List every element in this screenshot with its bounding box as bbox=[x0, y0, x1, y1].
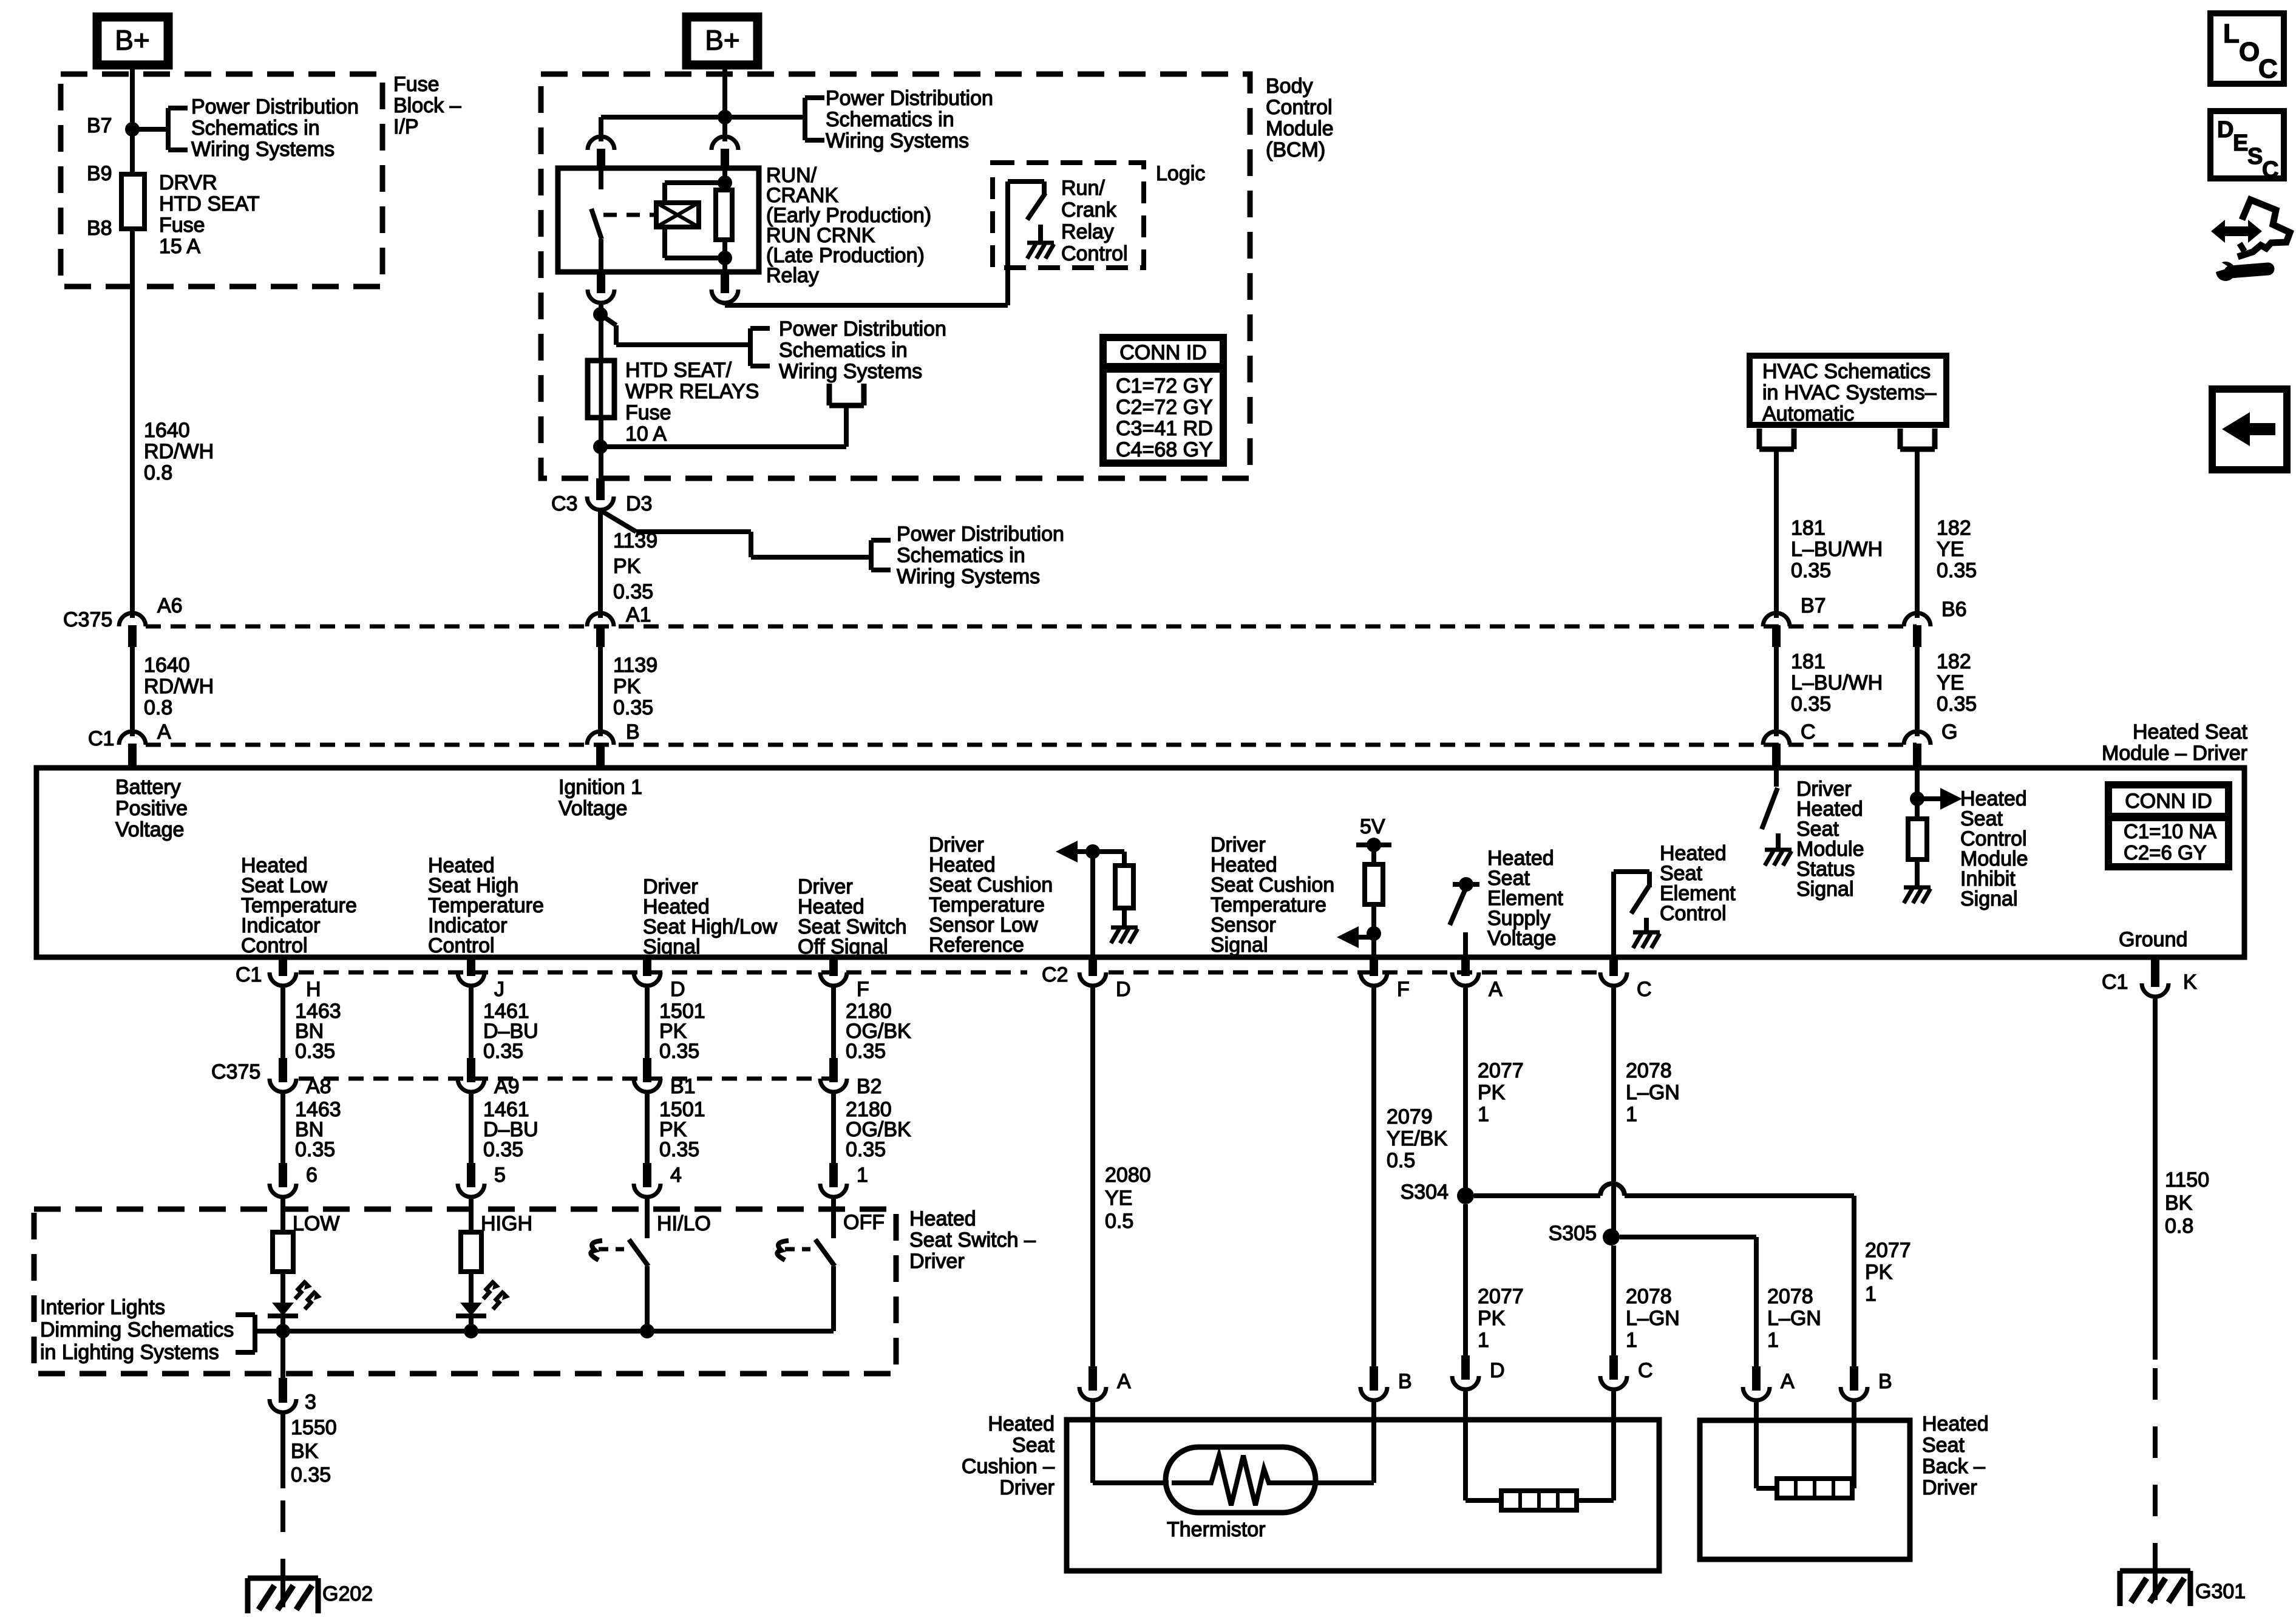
label C1 (bottom row) bbox=[236, 963, 262, 986]
svg-text:0.8: 0.8 bbox=[144, 696, 172, 719]
label C2 (bottom row) bbox=[1042, 963, 1068, 986]
label BCM connector list bbox=[1116, 375, 1213, 461]
svg-text:2078: 2078 bbox=[1626, 1285, 1672, 1308]
label pin K bbox=[2183, 971, 2197, 994]
label Run/Crank Relay Control bbox=[1061, 177, 1128, 265]
heated seat switch dashed box bbox=[34, 1209, 896, 1374]
svg-text:Body: Body bbox=[1266, 75, 1313, 98]
svg-text:5: 5 bbox=[494, 1164, 506, 1187]
label 5V bbox=[1360, 815, 1385, 838]
svg-text:S305: S305 bbox=[1549, 1222, 1597, 1245]
svg-text:L–GN: L–GN bbox=[1767, 1307, 1821, 1330]
wire segment to C375 row2 x=776 bbox=[469, 987, 474, 1070]
label G301 bbox=[2195, 1580, 2246, 1603]
svg-text:1640: 1640 bbox=[144, 419, 190, 442]
label Heated Seat Back - Driver bbox=[1922, 1412, 1989, 1499]
svg-text:2077: 2077 bbox=[1865, 1239, 1911, 1262]
connector pin 3 bbox=[270, 1378, 296, 1412]
label B6 pin bbox=[1941, 598, 1967, 621]
svg-text:Back –: Back – bbox=[1922, 1455, 1985, 1478]
label C1=10 NA C2=6 GY bbox=[2124, 820, 2216, 864]
svg-text:Control: Control bbox=[428, 934, 495, 957]
svg-text:S304: S304 bbox=[1401, 1181, 1449, 1204]
label cushion pin C bbox=[1638, 1359, 1653, 1382]
wire 1139 PK right-down bbox=[636, 532, 870, 557]
label Heated Seat High Temperature Indicator Control bbox=[428, 854, 544, 957]
svg-text:Voltage: Voltage bbox=[115, 818, 184, 841]
icon connector service bbox=[2211, 200, 2290, 281]
svg-text:C375: C375 bbox=[63, 608, 112, 631]
relay fixed contact bbox=[599, 168, 603, 189]
svg-text:181: 181 bbox=[1791, 517, 1826, 540]
connector relay pin top-left bbox=[588, 137, 614, 171]
label OFF bbox=[843, 1211, 885, 1234]
svg-text:Voltage: Voltage bbox=[1487, 927, 1556, 950]
svg-text:Run/: Run/ bbox=[1061, 177, 1105, 200]
connector C2 pin A bbox=[1452, 957, 1479, 986]
relay resistor wires bbox=[722, 168, 727, 272]
svg-text:Thermistor: Thermistor bbox=[1167, 1518, 1265, 1541]
svg-text:Power Distribution: Power Distribution bbox=[826, 87, 993, 110]
wire BCM feed horizontal bbox=[601, 115, 805, 120]
ground logic bbox=[1027, 243, 1054, 259]
node low reference junction bbox=[1085, 844, 1100, 859]
label pin A9 bbox=[494, 1075, 520, 1098]
node rail hi/lo bbox=[640, 1324, 654, 1338]
svg-text:Wiring Systems: Wiring Systems bbox=[826, 129, 969, 152]
svg-text:A: A bbox=[1117, 1370, 1131, 1393]
fuse DRVR HTD SEAT 15A bbox=[121, 174, 144, 229]
connector cushion D bbox=[1452, 1355, 1479, 1389]
label 1461 D-BU 0.35 (upper) bbox=[483, 1000, 538, 1063]
label 2078 L-GN 1 (upper) bbox=[1626, 1059, 1680, 1126]
svg-text:Module – Driver: Module – Driver bbox=[2102, 742, 2247, 765]
label G202 bbox=[322, 1582, 373, 1605]
connector relay pin top-right bbox=[712, 137, 738, 171]
svg-text:G: G bbox=[1941, 720, 1957, 744]
wire relay stub left bbox=[599, 168, 603, 171]
label pin 3 bbox=[305, 1391, 316, 1414]
wire A1 down bbox=[598, 511, 603, 618]
svg-text:Heated: Heated bbox=[909, 1207, 976, 1230]
svg-text:2077: 2077 bbox=[1478, 1059, 1524, 1082]
svg-text:0.35: 0.35 bbox=[1937, 693, 1977, 716]
svg-text:0.35: 0.35 bbox=[613, 580, 653, 603]
connector C1 A bbox=[119, 731, 146, 765]
label pin B2 bbox=[857, 1075, 882, 1098]
label Driver Heated Seat Cushion Temperature Sensor Low Reference bbox=[929, 833, 1053, 957]
svg-text:LOW: LOW bbox=[293, 1212, 339, 1235]
label 1461 D-BU 0.35 (lower) bbox=[483, 1098, 538, 1161]
svg-text:Schematics in: Schematics in bbox=[779, 339, 908, 362]
wire to relay pin 1 bbox=[599, 117, 603, 141]
svg-text:C1=10 NA: C1=10 NA bbox=[2124, 820, 2216, 842]
svg-text:C1: C1 bbox=[236, 963, 262, 986]
svg-text:PK: PK bbox=[1865, 1261, 1893, 1284]
connector cushion C bbox=[1600, 1355, 1627, 1389]
label Heated Seat Cushion - Driver bbox=[962, 1412, 1055, 1499]
connector C3/D3 bbox=[587, 478, 614, 510]
svg-text:Schematics in: Schematics in bbox=[191, 117, 320, 140]
label pin J (C1 bottom) bbox=[494, 978, 504, 1001]
wire BCM edge to C3 bbox=[599, 478, 603, 486]
svg-text:Fuse: Fuse bbox=[393, 73, 440, 96]
svg-text:HTD SEAT: HTD SEAT bbox=[159, 192, 260, 215]
label power distribution schematics (fuse block) bbox=[191, 95, 359, 161]
relay RUN/CRANK box bbox=[558, 168, 759, 272]
svg-text:BK: BK bbox=[2165, 1192, 2193, 1215]
BCM CONN ID box bbox=[1103, 337, 1223, 463]
svg-text:Signal: Signal bbox=[1796, 878, 1854, 901]
label pin 1 bbox=[857, 1164, 868, 1187]
wire cushion element C lead bbox=[1577, 1391, 1614, 1500]
svg-text:A8: A8 bbox=[306, 1075, 331, 1098]
svg-text:1150: 1150 bbox=[2165, 1168, 2209, 1192]
connector relay pin bottom-right bbox=[712, 272, 738, 303]
wire D column down bbox=[1090, 987, 1095, 1368]
svg-text:0.35: 0.35 bbox=[295, 1040, 335, 1063]
wire resistor to F pin bbox=[1371, 904, 1376, 957]
wire segment to C375 row2 x=1373 bbox=[831, 987, 836, 1070]
svg-text:1139: 1139 bbox=[613, 529, 657, 552]
label Body Control Module (BCM) bbox=[1266, 75, 1334, 161]
svg-text:Seat: Seat bbox=[1012, 1434, 1055, 1457]
wire fuse to C375 bbox=[130, 229, 135, 618]
svg-text:2079: 2079 bbox=[1387, 1105, 1433, 1128]
label C1 (row) bbox=[88, 727, 114, 750]
svg-text:0.35: 0.35 bbox=[659, 1138, 699, 1161]
svg-text:Wiring Systems: Wiring Systems bbox=[779, 360, 922, 383]
svg-text:PK: PK bbox=[1478, 1307, 1506, 1330]
module status switch blade bbox=[1762, 788, 1778, 829]
node S305 bbox=[1603, 1229, 1620, 1246]
connector C1 pin K bbox=[2142, 957, 2169, 997]
connector row C375 dashed line bbox=[146, 625, 1917, 629]
label 1150 BK 0.8 bbox=[2165, 1168, 2209, 1238]
svg-text:F: F bbox=[1397, 978, 1410, 1001]
svg-text:S: S bbox=[2247, 144, 2263, 169]
B+ terminal (BCM) bbox=[687, 17, 758, 65]
svg-text:A: A bbox=[1781, 1370, 1795, 1393]
connector C375 B6 bbox=[1904, 613, 1931, 647]
heater element cushion bbox=[1501, 1491, 1577, 1510]
wire A column below S304 bbox=[1463, 1204, 1468, 1358]
bracket power distribution (fuse block) bbox=[168, 108, 188, 150]
svg-text:D: D bbox=[1116, 978, 1131, 1001]
svg-text:1: 1 bbox=[1478, 1329, 1489, 1352]
connector C1 pin H bbox=[270, 957, 296, 986]
svg-text:CONN ID: CONN ID bbox=[2125, 790, 2212, 813]
svg-text:L–GN: L–GN bbox=[1626, 1307, 1680, 1330]
heater element back bbox=[1777, 1479, 1852, 1498]
label 181 L-BU/WH 0.35 (lower) bbox=[1791, 650, 1883, 716]
svg-text:(BCM): (BCM) bbox=[1266, 138, 1325, 161]
label pin C (C2) bbox=[1637, 978, 1652, 1001]
wire D pin riser bbox=[1090, 852, 1095, 957]
module CONN ID box bbox=[2108, 785, 2229, 867]
connector relay pin bottom-left bbox=[588, 272, 614, 303]
resistor inhibit bbox=[1908, 819, 1927, 859]
svg-text:Signal: Signal bbox=[1960, 887, 2018, 910]
bracket power distribution (right of D3) bbox=[871, 540, 891, 570]
connector switch pin 4 bbox=[634, 1163, 661, 1197]
svg-text:2080: 2080 bbox=[1105, 1164, 1151, 1187]
svg-text:0.35: 0.35 bbox=[1791, 559, 1831, 582]
connector back B bbox=[1841, 1366, 1867, 1400]
svg-text:0.8: 0.8 bbox=[144, 461, 172, 484]
label pin A bbox=[157, 720, 171, 744]
svg-text:H: H bbox=[306, 978, 321, 1001]
label Driver Heated Seat Switch Off Signal bbox=[798, 875, 907, 958]
ground G301 bbox=[2120, 1571, 2190, 1606]
wire K dashed bbox=[2153, 1368, 2158, 1568]
svg-text:J: J bbox=[494, 978, 504, 1001]
label B9 bbox=[87, 162, 112, 185]
label pin G bbox=[1941, 720, 1957, 744]
svg-text:Signal: Signal bbox=[643, 935, 701, 958]
node fuse-top junction bbox=[593, 307, 608, 322]
wire cushion element D lead bbox=[1466, 1391, 1501, 1500]
svg-text:3: 3 bbox=[305, 1391, 316, 1414]
svg-text:Heated: Heated bbox=[988, 1412, 1055, 1436]
svg-text:1: 1 bbox=[1626, 1103, 1637, 1126]
wire S305 branch right bbox=[1620, 1237, 1756, 1368]
wire cushion B lead bbox=[1311, 1402, 1374, 1483]
svg-text:Power Distribution: Power Distribution bbox=[897, 523, 1064, 546]
label pin 5 bbox=[494, 1164, 506, 1187]
connector row C1-bottom dashed (left) bbox=[299, 971, 1027, 975]
svg-text:Off Signal: Off Signal bbox=[798, 935, 888, 958]
wire C column below S305 bbox=[1611, 1246, 1616, 1358]
svg-text:HI/LO: HI/LO bbox=[657, 1212, 711, 1235]
relay linkage dashes bbox=[603, 213, 656, 217]
rail 5V bbox=[1356, 838, 1391, 852]
svg-text:A: A bbox=[157, 720, 171, 744]
wire relay left pin down bbox=[599, 304, 603, 314]
label pin F (C1 bottom) bbox=[857, 978, 869, 1001]
B+ terminal (left) bbox=[97, 17, 168, 65]
wire A into module bbox=[130, 765, 135, 768]
svg-text:Driver: Driver bbox=[1922, 1476, 1977, 1499]
svg-text:Schematics in: Schematics in bbox=[897, 544, 1025, 567]
wire B into module bbox=[598, 765, 603, 768]
svg-text:B: B bbox=[1878, 1370, 1892, 1393]
svg-text:C375: C375 bbox=[211, 1060, 260, 1083]
wire relay to logic bbox=[725, 181, 1008, 305]
svg-text:RD/WH: RD/WH bbox=[144, 440, 214, 463]
BCM dashed box bbox=[541, 74, 1250, 478]
wire segment to switch row x=466 bbox=[280, 1093, 285, 1175]
svg-text:YE: YE bbox=[1937, 538, 1964, 561]
label pin D (C2) bbox=[1116, 978, 1131, 1001]
svg-text:2077: 2077 bbox=[1478, 1285, 1524, 1308]
label B8 bbox=[87, 217, 112, 240]
svg-text:Control: Control bbox=[1266, 96, 1333, 119]
svg-text:15 A: 15 A bbox=[159, 235, 200, 258]
svg-text:0.35: 0.35 bbox=[483, 1040, 523, 1063]
relay coil branch top bbox=[665, 175, 732, 203]
label Driver Heated Seat Module Status Signal bbox=[1796, 778, 1864, 901]
svg-text:Heated Seat: Heated Seat bbox=[2133, 720, 2248, 744]
svg-text:L–BU/WH: L–BU/WH bbox=[1791, 671, 1883, 694]
svg-text:B8: B8 bbox=[87, 217, 112, 240]
svg-text:A: A bbox=[1489, 978, 1503, 1001]
connector C375 pin A8 bbox=[270, 1058, 296, 1092]
svg-text:E: E bbox=[2233, 131, 2248, 156]
connector row C1 dashed line bbox=[146, 743, 1917, 747]
svg-text:C: C bbox=[1638, 1359, 1653, 1382]
node rail high bbox=[464, 1324, 478, 1338]
label B7 pin bbox=[1801, 594, 1826, 617]
label 1139 PK 0.35 (D3 wire) bbox=[613, 529, 657, 603]
ground element control bbox=[1633, 932, 1660, 948]
relay coil branch bottom bbox=[665, 227, 732, 265]
wire 182 down to B6 bbox=[1915, 449, 1920, 618]
ground inhibit bbox=[1904, 887, 1931, 903]
label RUN/CRANK relay bbox=[766, 164, 931, 287]
wire to relay pin 2 bbox=[722, 117, 727, 141]
svg-text:0.8: 0.8 bbox=[2165, 1215, 2193, 1238]
svg-text:DRVR: DRVR bbox=[159, 171, 217, 194]
label pin D (C1 bottom) bbox=[670, 978, 685, 1001]
connector C375 A1 bbox=[587, 613, 614, 647]
svg-text:Power Distribution: Power Distribution bbox=[779, 317, 946, 341]
connector C1 G bbox=[1904, 731, 1931, 765]
label pin A8 bbox=[306, 1075, 331, 1098]
connector C375 B7 bbox=[1763, 613, 1790, 647]
element supply contact bar bbox=[1453, 877, 1479, 892]
svg-text:4: 4 bbox=[670, 1164, 682, 1187]
label C3 bbox=[551, 492, 577, 515]
label S305 bbox=[1549, 1222, 1597, 1245]
label Interior Lights Dimming Schematics bbox=[40, 1296, 234, 1364]
wire 1550 solid bbox=[280, 1414, 285, 1488]
svg-text:C: C bbox=[1637, 978, 1652, 1001]
label S304 bbox=[1401, 1181, 1449, 1204]
node sensor signal junction bbox=[1367, 926, 1381, 941]
svg-text:B9: B9 bbox=[87, 162, 112, 185]
wire back B lead bbox=[1852, 1402, 1854, 1488]
node inhibit junction bbox=[1910, 792, 1924, 806]
label back pin B bbox=[1878, 1370, 1892, 1393]
label D3 bbox=[626, 492, 652, 515]
label 2077 PK 1 (B branch) bbox=[1865, 1239, 1911, 1306]
relay switch blade bbox=[591, 209, 602, 239]
label 182 YE 0.35 (upper) bbox=[1937, 517, 1977, 582]
wire B+ down into BCM bbox=[722, 65, 727, 117]
wire segment to C375 row2 x=1066 bbox=[645, 987, 650, 1070]
wire B7-C seg bbox=[1774, 647, 1779, 736]
bracket-u power distribution (BCM bottom) bbox=[829, 384, 864, 405]
svg-text:Logic: Logic bbox=[1156, 162, 1205, 185]
connector row C375-2 dashed line bbox=[299, 1077, 834, 1081]
connector C1 pin F bbox=[820, 957, 847, 986]
wire fuse to BCM edge bbox=[599, 418, 603, 478]
resistor low reference bbox=[1115, 866, 1133, 908]
svg-text:1640: 1640 bbox=[144, 654, 190, 677]
ground module status bbox=[1765, 850, 1792, 866]
wire A pin riser bbox=[1463, 932, 1468, 957]
LED high indicator bbox=[456, 1198, 510, 1331]
node B7 junction bbox=[125, 122, 140, 137]
switch HI/LO bbox=[591, 1198, 648, 1331]
svg-text:1: 1 bbox=[1478, 1103, 1489, 1126]
svg-text:L–BU/WH: L–BU/WH bbox=[1791, 538, 1883, 561]
wire low ref resistor to ground bbox=[1122, 908, 1127, 927]
wire B7 tap bbox=[132, 127, 168, 132]
svg-text:WPR RELAYS: WPR RELAYS bbox=[625, 380, 759, 403]
svg-text:0.35: 0.35 bbox=[295, 1138, 335, 1161]
thermistor element bbox=[1172, 1456, 1311, 1505]
svg-text:D: D bbox=[1490, 1359, 1505, 1382]
label 2180 OG/BK 0.35 (upper) bbox=[846, 1000, 911, 1063]
ground low reference bbox=[1111, 927, 1138, 943]
svg-text:B1: B1 bbox=[670, 1075, 696, 1098]
label A1 pin bbox=[626, 603, 651, 626]
label pin 4 bbox=[670, 1164, 682, 1187]
svg-text:B7: B7 bbox=[87, 114, 112, 137]
svg-text:1550: 1550 bbox=[291, 1416, 337, 1439]
connector C375 pin B2 bbox=[820, 1058, 847, 1092]
label HTD SEAT/WPR RELAYS Fuse 10 A bbox=[625, 359, 759, 446]
svg-text:0.5: 0.5 bbox=[1387, 1149, 1415, 1172]
svg-text:182: 182 bbox=[1937, 517, 1971, 540]
icon DESC box bbox=[2210, 111, 2284, 183]
label Heated Seat Control Module Inhibit Signal bbox=[1960, 787, 2028, 910]
svg-text:Automatic: Automatic bbox=[1762, 402, 1854, 425]
relay coil X-box bbox=[656, 203, 699, 227]
svg-text:D: D bbox=[670, 978, 685, 1001]
label cushion pin B bbox=[1398, 1370, 1412, 1393]
label 2078 L-GN 1 (A branch) bbox=[1767, 1285, 1821, 1352]
svg-text:Wiring Systems: Wiring Systems bbox=[897, 565, 1040, 588]
label CONN ID (BCM) bbox=[1119, 341, 1207, 364]
svg-text:Power Distribution: Power Distribution bbox=[191, 95, 359, 118]
element control blade bbox=[1631, 886, 1649, 914]
wire A column to S304 bbox=[1463, 987, 1468, 1196]
logic switch lower stub bbox=[1038, 225, 1043, 243]
svg-text:1: 1 bbox=[1865, 1283, 1877, 1306]
wire cushion A lead bbox=[1093, 1402, 1169, 1483]
label Fuse Block - I/P bbox=[393, 73, 461, 138]
switch blade D3 bbox=[602, 511, 636, 532]
label DRVR HTD SEAT Fuse 15 A bbox=[159, 171, 260, 258]
label power distribution schematics (right of D3) bbox=[897, 523, 1064, 588]
node BCM feed junction bbox=[718, 110, 732, 124]
svg-text:Fuse: Fuse bbox=[625, 401, 671, 424]
label pin A (C2) bbox=[1489, 978, 1503, 1001]
label 1139 PK 0.35 (lower) bbox=[613, 654, 657, 719]
thermistor bbox=[1166, 1447, 1316, 1513]
label pin 6 bbox=[306, 1164, 318, 1187]
label HIGH bbox=[481, 1212, 532, 1235]
bracket-u HVAC right bbox=[1900, 429, 1935, 449]
svg-text:in HVAC Systems–: in HVAC Systems– bbox=[1762, 381, 1937, 404]
label Battery Positive Voltage bbox=[115, 776, 188, 841]
element control ground stub bbox=[1644, 918, 1649, 932]
wire 1139 to bracket bbox=[616, 342, 750, 347]
svg-text:Seat Switch –: Seat Switch – bbox=[909, 1229, 1036, 1252]
label Heated Seat Element Supply Voltage bbox=[1487, 847, 1563, 950]
svg-text:Reference: Reference bbox=[929, 934, 1024, 957]
label Ignition 1 Voltage bbox=[559, 776, 642, 820]
svg-text:Crank: Crank bbox=[1061, 198, 1117, 222]
connector C2 pin F bbox=[1360, 957, 1387, 986]
connector row C2 dashed (right) bbox=[1109, 971, 1599, 975]
svg-text:Control: Control bbox=[241, 934, 308, 957]
wire C column to S305 bbox=[1611, 987, 1616, 1237]
connector C1 B bbox=[587, 731, 614, 765]
